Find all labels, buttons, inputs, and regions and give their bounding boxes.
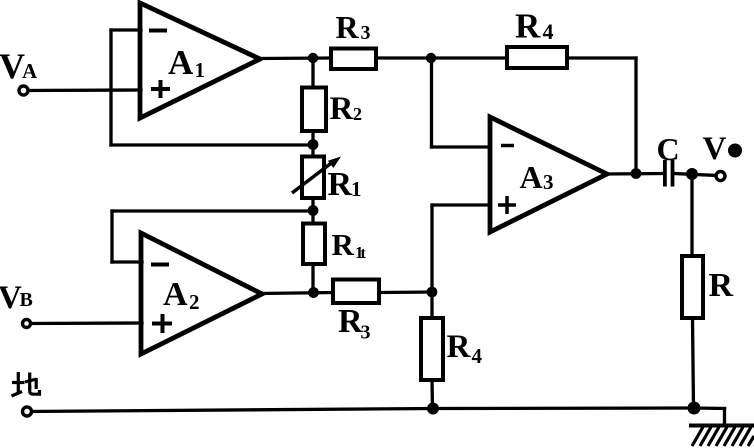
svg-text:A: A	[520, 159, 543, 195]
svg-text:3: 3	[543, 170, 554, 194]
svg-text:2: 2	[353, 104, 362, 124]
svg-text:R: R	[336, 9, 360, 45]
svg-text:R: R	[338, 303, 363, 340]
svg-text:R: R	[709, 267, 734, 304]
svg-text:B: B	[20, 289, 33, 311]
svg-text:3: 3	[361, 22, 371, 44]
svg-text:R: R	[447, 329, 472, 365]
svg-text:R: R	[330, 91, 355, 127]
svg-text:A: A	[22, 59, 38, 83]
svg-text:R: R	[332, 227, 355, 262]
svg-text:4: 4	[472, 344, 483, 368]
svg-text:R: R	[328, 166, 353, 203]
svg-text:A: A	[168, 43, 194, 82]
svg-text:1: 1	[351, 177, 362, 201]
svg-text:A: A	[163, 276, 188, 313]
svg-text:C: C	[657, 131, 680, 167]
svg-text:1: 1	[195, 58, 206, 82]
svg-text:t: t	[361, 245, 367, 262]
svg-text:4: 4	[543, 19, 554, 44]
svg-text:R: R	[515, 7, 541, 46]
svg-text:2: 2	[189, 290, 200, 314]
svg-text:V: V	[703, 131, 727, 167]
svg-text:3: 3	[361, 322, 371, 344]
